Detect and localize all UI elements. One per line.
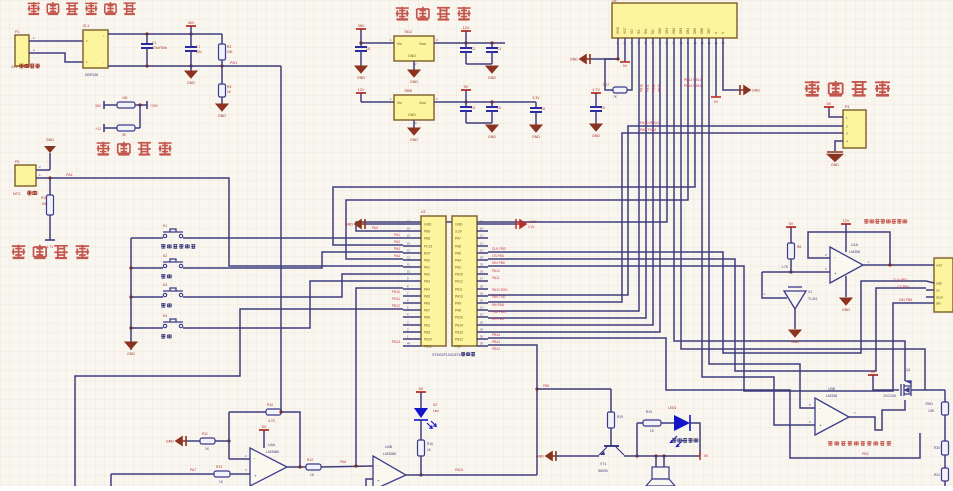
svg-text:RST: RST xyxy=(424,252,431,256)
mcu left pin PB1 xyxy=(424,324,430,328)
mcu left pin PA6 xyxy=(424,302,430,306)
mcu right pin GND xyxy=(455,223,463,227)
pin name GND (vertical) xyxy=(616,26,620,34)
power port 5V above P3 xyxy=(824,102,834,107)
svg-text:CLK PB3: CLK PB3 xyxy=(492,247,506,251)
mcu right pin PA3 xyxy=(455,266,461,270)
svg-text:DB3: DB3 xyxy=(679,28,683,34)
svg-text:PB12: PB12 xyxy=(455,338,463,342)
svg-text:PB12 PB13: PB12 PB13 xyxy=(684,78,702,82)
svg-text:GND: GND xyxy=(592,134,600,138)
mcu left pin PB9 xyxy=(424,230,430,234)
mcu left pin PA4 xyxy=(424,288,430,292)
svg-text:PA2: PA2 xyxy=(394,240,400,244)
wire RW1 to R20 xyxy=(944,415,946,441)
pin name DB2 (vertical) xyxy=(672,28,676,34)
svg-text:10K: 10K xyxy=(928,409,935,413)
wire R11 to node xyxy=(215,440,229,442)
svg-text:R17: R17 xyxy=(603,83,609,87)
svg-text:DB1: DB1 xyxy=(665,28,669,34)
net label cluster right xyxy=(684,78,702,82)
title: serial debug (hanzi) xyxy=(805,81,820,96)
svg-text:GND: GND xyxy=(570,58,578,62)
svg-text:U5: U5 xyxy=(612,0,616,3)
svg-text:24V: 24V xyxy=(11,65,18,69)
svg-text:PA1: PA1 xyxy=(424,266,430,270)
svg-text:PA9 TXD1: PA9 TXD1 xyxy=(640,128,657,132)
wire Q1 drain top xyxy=(904,378,906,381)
svg-text:PA12: PA12 xyxy=(455,280,463,284)
power port GND arrow left of R11 xyxy=(166,436,186,446)
svg-text:GND: GND xyxy=(218,114,226,118)
wire P3 pin1 to 5V xyxy=(829,108,843,117)
wire 7805 output rail xyxy=(434,101,536,103)
svg-text:PA5: PA5 xyxy=(424,295,430,299)
svg-text:DB2: DB2 xyxy=(672,28,676,34)
mcu right pin PA8 xyxy=(455,309,461,313)
led LED3 (right pointing) xyxy=(670,415,690,447)
mcu right pin PB13 xyxy=(455,331,463,335)
svg-text:CS PB4: CS PB4 xyxy=(897,285,909,289)
svg-text:P36 PB07: P36 PB07 xyxy=(492,310,507,314)
wire P3 pin4 to GND xyxy=(835,141,843,151)
svg-text:PA4: PA4 xyxy=(66,173,73,177)
svg-text:P3: P3 xyxy=(845,105,849,109)
net labels left of MCU xyxy=(394,233,400,237)
svg-text:5% PA8: 5% PA8 xyxy=(492,303,504,307)
wire TL431 cathode down to gnd xyxy=(794,309,796,329)
svg-text:GND: GND xyxy=(536,455,544,459)
label under K4 (hanzi) xyxy=(161,334,165,338)
ground below button column xyxy=(130,342,132,350)
wire R13 to plus input xyxy=(230,473,250,475)
wire U4A output xyxy=(287,466,306,468)
svg-text:Q1: Q1 xyxy=(906,368,911,372)
svg-text:PB11: PB11 xyxy=(392,297,400,301)
svg-text:PA0: PA0 xyxy=(372,226,378,230)
pin name DB0 (vertical) xyxy=(658,28,662,34)
resistor R12 xyxy=(306,464,321,470)
svg-text:RW: RW xyxy=(644,29,648,34)
wire long net MCU row309 to bottom-left xyxy=(75,309,403,486)
mcu right pin PA12 xyxy=(455,280,463,284)
svg-text:GND: GND xyxy=(410,138,418,142)
power bar 5V pin2 xyxy=(620,61,630,63)
wire LCD pin2 to 5V xyxy=(624,50,626,62)
ground below C7 xyxy=(190,66,192,71)
ground below C8 xyxy=(355,66,367,80)
pin name RW (vertical) xyxy=(644,29,648,34)
connector U5 LCD header xyxy=(612,3,737,38)
svg-text:6% PB5: 6% PB5 xyxy=(492,317,504,321)
svg-text:PA10 RXD1: PA10 RXD1 xyxy=(640,121,659,125)
wire LCD pin4 to MCU row (bus A1) xyxy=(488,50,639,311)
label light emitting diode (hanzi) xyxy=(672,438,676,442)
ground below C9 xyxy=(590,124,602,138)
pin name DB4 (vertical) xyxy=(686,28,690,34)
resistor R3 xyxy=(221,66,223,84)
wire LCD pin14 to opamp U3B plus xyxy=(709,50,815,408)
svg-text:R16: R16 xyxy=(427,442,433,446)
wire R15 to LED3 xyxy=(661,422,674,424)
svg-text:PB14: PB14 xyxy=(455,324,463,328)
standalone cap C9 right xyxy=(591,88,601,93)
svg-text:1.7V: 1.7V xyxy=(47,245,55,249)
svg-text:+: + xyxy=(834,271,837,276)
svg-text:R20: R20 xyxy=(934,446,940,450)
wire P2 pin2 xyxy=(36,169,50,171)
svg-text:2SC24N: 2SC24N xyxy=(884,394,897,398)
wire LCD pin8 long net left xyxy=(356,50,667,231)
pin name K (vertical) xyxy=(721,31,725,34)
net labels right of MCU xyxy=(492,247,506,251)
wire between debug resistors xyxy=(139,105,141,128)
svg-text:U1A: U1A xyxy=(851,243,859,247)
capacitor C2 output xyxy=(465,43,467,48)
svg-text:PC13: PC13 xyxy=(424,245,432,249)
svg-text:GND: GND xyxy=(410,80,418,84)
wire long vertical from rail to lower-left amp xyxy=(280,66,282,412)
wire + rail xyxy=(108,33,222,35)
net label PA01 xyxy=(455,468,464,472)
svg-text:LM358: LM358 xyxy=(826,394,837,398)
mcu right pin PA4 xyxy=(455,259,461,263)
mcu left pin PA1 xyxy=(424,266,430,270)
mcu right pin PA5 xyxy=(455,252,461,256)
mcu part number text xyxy=(432,353,461,357)
wire R19 to VT1 xyxy=(610,428,612,446)
connector P1 xyxy=(15,35,29,66)
svg-text:R2: R2 xyxy=(227,45,231,49)
LCD pin stubs xyxy=(617,38,619,50)
wire TL431 loop left xyxy=(762,272,787,298)
svg-text:STM32F103C8T6: STM32F103C8T6 xyxy=(432,353,461,357)
svg-text:C2: C2 xyxy=(471,47,475,51)
svg-text:RS: RS xyxy=(637,30,641,34)
wire R20 to R21 xyxy=(944,455,946,468)
svg-text:+: + xyxy=(819,423,822,428)
svg-text:cs: cs xyxy=(936,289,940,293)
svg-text:R3: R3 xyxy=(227,85,231,89)
wire U3B minus stub number xyxy=(809,420,811,424)
wire R16 to terminal xyxy=(49,215,51,240)
svg-text:PB10: PB10 xyxy=(424,338,432,342)
svg-text:12V: 12V xyxy=(463,26,470,30)
mcu right pin PA15 xyxy=(455,273,463,277)
svg-text:PA10: PA10 xyxy=(455,295,463,299)
resistor RW1 xyxy=(942,402,949,415)
wire down to R16 xyxy=(49,178,51,195)
title: power input rectifier (hanzi) xyxy=(28,2,40,14)
svg-text:K4: K4 xyxy=(163,314,167,318)
svg-text:sclk: sclk xyxy=(936,282,942,286)
wire P1 pin1 to ZL1 xyxy=(29,40,83,42)
svg-text:C3: C3 xyxy=(497,47,501,51)
mcu right pin 3.3V xyxy=(455,230,463,234)
capacitor C3 output xyxy=(491,43,493,48)
net label on plus wire xyxy=(190,468,196,472)
pin name DB7 (vertical) xyxy=(707,28,711,34)
svg-text:PA3: PA3 xyxy=(424,280,430,284)
mcu right pin PA11 xyxy=(455,288,463,292)
wire plus input from left net xyxy=(111,473,214,475)
svg-text:PA0: PA0 xyxy=(424,259,430,263)
switch K4 xyxy=(163,319,183,328)
wire - rail xyxy=(108,65,281,67)
svg-text:KBP206: KBP206 xyxy=(85,73,98,77)
pin name DB6 (vertical) xyxy=(700,28,704,34)
svg-text:DB7: DB7 xyxy=(707,28,711,34)
button column vertical wire xyxy=(130,238,132,342)
ground below R3 xyxy=(221,97,223,104)
svg-text:R13: R13 xyxy=(216,465,222,469)
resistor R21 xyxy=(942,468,949,481)
wire branch to R19 xyxy=(537,388,611,390)
net label on lower loop xyxy=(862,452,869,456)
wire LED3 to loop right xyxy=(690,423,700,456)
svg-text:R21: R21 xyxy=(934,473,940,477)
led D2 xyxy=(414,408,436,428)
svg-text:PA10 RXD: PA10 RXD xyxy=(492,288,508,292)
svg-text:36V: 36V xyxy=(358,24,365,28)
pin name RS (vertical) xyxy=(637,30,641,34)
svg-text:K1: K1 xyxy=(163,224,167,228)
svg-text:GND: GND xyxy=(345,223,353,227)
svg-text:R15: R15 xyxy=(646,410,652,414)
svg-text:DB6: DB6 xyxy=(700,28,704,34)
mcu left pin PA3 xyxy=(424,280,430,284)
svg-text:D2: D2 xyxy=(433,403,437,407)
svg-text:5V: 5V xyxy=(262,425,267,429)
power port GND above P2 xyxy=(46,138,54,142)
power port 12V row2 xyxy=(356,88,366,93)
svg-text:36V: 36V xyxy=(188,21,195,25)
pin name VCC (vertical) xyxy=(623,27,627,34)
resistor R16 xyxy=(47,195,54,215)
svg-text:VO: VO xyxy=(630,29,634,34)
wire button left stub xyxy=(131,327,163,329)
svg-text:-: - xyxy=(103,61,104,65)
ground below 7812 xyxy=(413,61,415,70)
svg-text:GND: GND xyxy=(166,440,174,444)
power port 5V near Q1 xyxy=(868,370,878,375)
wire K3 to MCU xyxy=(183,274,403,297)
wire LCD pin13 to opamp U3B minus xyxy=(702,50,815,425)
terminal bar left upper + label 36V xyxy=(103,101,105,109)
wire MCU to ADC din xyxy=(488,266,926,391)
net label PA0 under row xyxy=(372,226,378,230)
svg-text:DB0: DB0 xyxy=(658,28,662,34)
svg-text:36V: 36V xyxy=(95,104,102,108)
wire K1 to MCU xyxy=(183,237,403,239)
mcu right pin PB12 xyxy=(455,338,463,342)
wire LCD pin10 to RW1 chain xyxy=(681,50,925,390)
net labels at ADC xyxy=(893,278,907,282)
svg-text:PA9: PA9 xyxy=(455,302,461,306)
pin name A (vertical) xyxy=(714,31,718,34)
wire LCD pin12 long net left xyxy=(333,50,695,245)
svg-text:CS PB4: CS PB4 xyxy=(492,254,504,258)
bridge rectifier ZL1 xyxy=(83,30,108,68)
svg-text:DB5: DB5 xyxy=(693,28,697,34)
mcu left pin RST xyxy=(424,252,431,256)
svg-text:Vin: Vin xyxy=(397,101,402,105)
transistor VT1 S8050 xyxy=(599,446,624,455)
resistor R5 (lower debug) xyxy=(104,127,117,129)
mcu right pin PB2 xyxy=(455,345,461,349)
capacitor C1 xyxy=(146,34,148,44)
svg-text:Vin: Vin xyxy=(397,42,402,46)
resistor R6 xyxy=(788,243,795,259)
svg-text:PA5: PA5 xyxy=(455,252,461,256)
svg-text:RW1: RW1 xyxy=(926,402,934,406)
pin name EN (vertical) xyxy=(651,29,655,34)
svg-text:PB1: PB1 xyxy=(424,324,430,328)
svg-text:VCC: VCC xyxy=(623,27,627,34)
wire feedback top + resistor R10 xyxy=(229,411,266,413)
power port 3.3V arrow right of MCU xyxy=(488,223,516,225)
wire R16 to output node xyxy=(420,456,422,475)
wire MCU row288 down to U4B plus xyxy=(356,288,403,466)
svg-text:+3.3V: +3.3V xyxy=(528,220,538,224)
svg-text:PA7: PA7 xyxy=(455,237,461,241)
wire U1A gnd pin xyxy=(845,276,847,297)
svg-text:PA4: PA4 xyxy=(424,288,430,292)
svg-text:R16: R16 xyxy=(41,196,47,200)
tl431 X1 xyxy=(784,287,806,309)
regulator 7812 U6 xyxy=(394,36,434,61)
pin name DB1 (vertical) xyxy=(665,28,669,34)
wire U4B minus stub xyxy=(366,479,373,486)
svg-text:PA01: PA01 xyxy=(455,468,464,472)
title: over temperature protection (hanzi) xyxy=(12,245,26,259)
power port GND arrow left of VT1 xyxy=(536,451,556,461)
svg-text:PA4: PA4 xyxy=(455,259,461,263)
svg-text:GND: GND xyxy=(46,138,54,142)
svg-text:PA6: PA6 xyxy=(455,245,461,249)
svg-text:PA12: PA12 xyxy=(492,269,500,273)
wire gnd to P2 pin2 xyxy=(49,153,51,170)
capacitor C7 electrolytic xyxy=(190,34,192,47)
svg-text:Led: Led xyxy=(433,409,439,413)
power label 3.3V far branch xyxy=(533,96,541,100)
wire LCD pin9 to Q1 drain (bottom-right) xyxy=(674,50,905,378)
svg-text:PB12: PB12 xyxy=(492,347,500,351)
svg-text:5V: 5V xyxy=(789,222,794,226)
svg-text:C4: C4 xyxy=(471,106,475,110)
svg-text:U3B: U3B xyxy=(828,387,836,391)
power port GND arrow left of LCD xyxy=(570,54,590,64)
adc pin stubs xyxy=(926,281,934,283)
mcu right pin PA6 xyxy=(455,245,461,249)
mcu left pin PB10 xyxy=(424,338,432,342)
wire minus input stub xyxy=(229,458,250,460)
net labels vertical on LCD bus xyxy=(640,84,644,92)
net label before U4B xyxy=(340,460,346,464)
svg-text:+: + xyxy=(254,474,257,479)
capacitor C8 input xyxy=(355,47,367,51)
power port 12V on output xyxy=(461,26,471,31)
svg-text:+: + xyxy=(103,34,105,38)
mcu U3 left column xyxy=(421,216,446,346)
wire TXD to MCU xyxy=(488,133,843,302)
resistor R4 (upper debug) xyxy=(104,104,117,106)
svg-text:3.3V: 3.3V xyxy=(533,96,541,100)
mcu left pin GND xyxy=(424,223,432,227)
wire MCU row345 to buzzer driver net xyxy=(488,345,537,475)
wire MCU to ADC sclk xyxy=(488,252,926,353)
op-amp U3B xyxy=(815,398,849,435)
svg-text:GND: GND xyxy=(842,308,850,312)
svg-text:GND: GND xyxy=(488,135,496,139)
ground below output caps row2 xyxy=(486,125,498,139)
svg-text:PB12: PB12 xyxy=(652,84,656,92)
mcu left pin PC13 xyxy=(424,245,432,249)
wire R12 to U4B plus xyxy=(321,466,373,467)
svg-text:PB9: PB9 xyxy=(424,230,430,234)
wire joining caps to gnd row1 xyxy=(466,63,492,65)
op-amp U1A xyxy=(830,247,863,283)
svg-text:PB13: PB13 xyxy=(492,340,500,344)
svg-text:PB14: PB14 xyxy=(492,333,500,337)
svg-text:Vout: Vout xyxy=(419,42,426,46)
power port 36V xyxy=(186,21,196,26)
svg-text:LM358K: LM358K xyxy=(383,452,397,456)
pin name DB3 (vertical) xyxy=(679,28,683,34)
resistor R13 xyxy=(214,471,230,477)
resistor R11 xyxy=(186,440,200,442)
svg-text:PB8: PB8 xyxy=(424,237,430,241)
wire plus input xyxy=(762,271,830,273)
svg-text:U4B: U4B xyxy=(385,445,393,449)
wire R17 left to gnd net xyxy=(605,59,618,90)
svg-text:dout: dout xyxy=(936,296,943,300)
svg-text:PB0: PB0 xyxy=(424,316,430,320)
ground below TL431 xyxy=(789,330,801,344)
power port 36V row1 xyxy=(356,24,366,29)
regulator 7805 U7 xyxy=(394,95,434,120)
power port 5V above U4A xyxy=(259,425,269,430)
node junction dots on rails xyxy=(145,32,148,35)
ground below output caps row1 xyxy=(486,66,498,80)
net label on divider tap xyxy=(230,61,237,65)
wire input to 7812 xyxy=(361,42,394,44)
svg-text:PB10: PB10 xyxy=(392,290,400,294)
svg-text:GND: GND xyxy=(127,352,135,356)
svg-text:TL431: TL431 xyxy=(808,297,818,301)
op-amp U4B xyxy=(373,456,406,490)
svg-text:ZL1: ZL1 xyxy=(83,24,89,28)
ground below U1A xyxy=(840,298,852,312)
wire button left stub xyxy=(131,237,163,239)
svg-text:PB15: PB15 xyxy=(455,316,463,320)
mcu left pin PA2 xyxy=(424,273,430,277)
svg-text:5V: 5V xyxy=(827,102,832,106)
wire Q1 right to resistor chain xyxy=(911,389,945,391)
power port 12V above U1A xyxy=(841,219,851,224)
svg-text:PB11: PB11 xyxy=(424,345,432,349)
svg-text:4.7K: 4.7K xyxy=(268,419,276,423)
wire loop vertical left xyxy=(636,423,638,456)
svg-text:PB2: PB2 xyxy=(862,452,869,456)
svg-text:S8050: S8050 xyxy=(598,469,608,473)
svg-text:GND: GND xyxy=(424,223,432,227)
op-amp U4A xyxy=(250,448,287,486)
capacitor C4 output xyxy=(465,102,467,107)
svg-text:PA6: PA6 xyxy=(340,460,346,464)
svg-text:7812: 7812 xyxy=(404,30,412,34)
wire R6 to +input xyxy=(790,259,792,272)
